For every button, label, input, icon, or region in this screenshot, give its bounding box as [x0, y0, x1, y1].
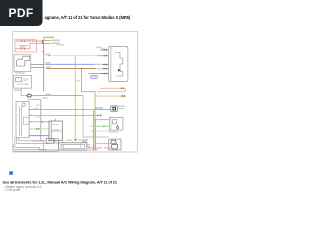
- label C202: [57, 44, 65, 45]
- label B2: [14, 90, 21, 91]
- wire brown W8: [46, 68, 97, 70]
- label on W24: [101, 48, 106, 49]
- wire blue W18b: [95, 109, 111, 111]
- pin ticks into U1: [104, 49, 107, 74]
- wire brown branch W9: [82, 69, 110, 120]
- label B5: [109, 131, 119, 132]
- connector strip B10: [58, 140, 87, 151]
- harness bundle bottom left: [13, 138, 59, 151]
- ECM box U1: [108, 47, 128, 82]
- wire gray vertical W17b: [40, 99, 42, 140]
- wire red W2: [16, 43, 44, 49]
- ticks W20: [35, 128, 38, 130]
- connector box B9: [55, 139, 59, 143]
- ticks W19: [97, 115, 100, 117]
- connector end marks W10: [122, 95, 123, 97]
- tick W23: [103, 126, 106, 128]
- wire gray faint W16c: [90, 130, 109, 132]
- wire black W12: [31, 67, 44, 69]
- label L14: [45, 94, 51, 95]
- page border: [13, 32, 138, 152]
- label blue L18: [95, 107, 103, 108]
- dashed box ignition switch SW1: [15, 40, 36, 52]
- wire purple W28: [33, 140, 44, 142]
- tick W6 end: [75, 139, 77, 140]
- wire olive vertical W9b: [94, 120, 96, 151]
- wire gray W19b: [29, 121, 49, 123]
- contact symbol S2a: [21, 48, 22, 49]
- contact symbol S2b: [24, 48, 25, 49]
- contact symbol S1b: [24, 40, 25, 41]
- label W17c: [36, 105, 40, 106]
- wire green vertical W6: [74, 56, 76, 140]
- pink note text: [88, 147, 102, 148]
- wire red W8b: [97, 68, 108, 70]
- label B1: [15, 72, 25, 73]
- wire black W11: [31, 64, 44, 66]
- wire red W1: [16, 40, 44, 42]
- pins B10: [62, 141, 85, 142]
- wire blue W7: [45, 63, 100, 65]
- connector box B5: [109, 117, 123, 130]
- PDF badge: [0, 0, 43, 26]
- wire gray W14b: [41, 95, 83, 97]
- label L7: [45, 62, 51, 63]
- connector box B6: [111, 106, 125, 112]
- svg-text:• Coil profit: • Coil profit: [5, 188, 21, 192]
- wire gray W19: [29, 114, 102, 116]
- wire yellow W5: [46, 55, 97, 57]
- attachment icon: [9, 171, 13, 175]
- svg-text:PDF: PDF: [9, 6, 34, 20]
- inline connector CV1: [27, 94, 31, 97]
- tick W19b: [41, 121, 44, 123]
- junction bar J1: [43, 39, 45, 92]
- wire pink W16: [96, 143, 109, 145]
- net label box N1: [91, 76, 98, 79]
- label on W7: [96, 63, 103, 66]
- tick T1: [41, 40, 44, 42]
- wire orange W13: [21, 88, 27, 95]
- tick on W5: [48, 55, 51, 57]
- wire pink hairpin W27: [97, 88, 125, 91]
- connector box B1: [14, 55, 31, 72]
- connector marks W27: [121, 88, 122, 90]
- relay box B4: [49, 119, 62, 141]
- label on W8b: [96, 67, 102, 70]
- label above W18: [34, 108, 39, 109]
- svg-text:agrams, A/T 11 of 21 for Yarco: agrams, A/T 11 of 21 for Yarco Modus S (…: [45, 15, 131, 20]
- label L3: [52, 40, 61, 41]
- connector box B7: [109, 139, 121, 150]
- wire dark W7b: [100, 63, 108, 65]
- svg-text:Use all Elements for 1.2L, Man: Use all Elements for 1.2L, Manual A/C Wi…: [3, 181, 117, 185]
- label L4: [52, 43, 61, 44]
- wire tan spur W10: [95, 95, 125, 97]
- wire tan W17: [28, 98, 41, 100]
- ticks on B3 edge: [30, 108, 31, 111]
- connector box B8: [46, 139, 54, 144]
- contact symbol S1a: [21, 40, 22, 41]
- label W16b: [82, 141, 87, 142]
- tick T2: [41, 42, 44, 44]
- wire blue W26: [88, 73, 100, 75]
- wire purple W21: [29, 135, 49, 137]
- junction dot D8: [81, 68, 82, 69]
- wire gray W18: [29, 109, 95, 111]
- wire dark W26b: [100, 73, 108, 75]
- stubs right of B10: [87, 145, 90, 147]
- label L8: [46, 67, 51, 68]
- wire blue W14: [32, 95, 42, 97]
- wire olive W4: [44, 42, 50, 44]
- connector box B2: [14, 76, 32, 89]
- label small L9: [76, 80, 80, 81]
- label L17: [42, 97, 48, 98]
- wire pale green W20: [29, 128, 49, 130]
- component box B3: [16, 101, 29, 138]
- switch marks SW1: [29, 40, 34, 41]
- label above junction J1: [43, 37, 54, 39]
- green mark G1: [42, 50, 44, 53]
- wire green W5b: [97, 55, 108, 57]
- label above W24: [96, 47, 102, 48]
- label L5: [45, 53, 50, 54]
- wire green W24: [100, 49, 108, 51]
- wire dark green vertical W22: [93, 110, 95, 150]
- wire olive W3: [44, 39, 50, 41]
- wire pale green W23: [91, 125, 110, 127]
- wire gray vertical W15: [83, 96, 109, 137]
- label W16a: [82, 139, 88, 140]
